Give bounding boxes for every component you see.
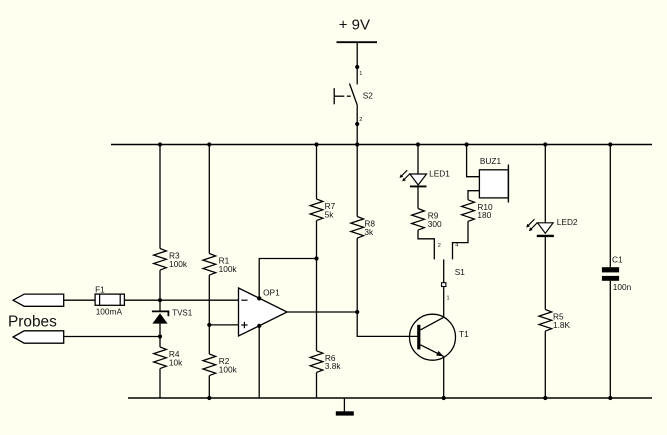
wire top rail to R7 [316, 145, 318, 200]
wire R10 to S1 pin 4 [453, 221, 469, 259]
wire plus input from R1/R2 node [209, 324, 238, 326]
resistor R3 [154, 249, 188, 271]
svg-text:S2: S2 [363, 90, 374, 100]
wire S2 blade to pin2 [356, 105, 358, 124]
wire op-amp V+ to R7 node [259, 259, 316, 299]
wire top rail to BUZ1 pin1 [467, 145, 480, 177]
resistor R2 [203, 354, 238, 376]
wire BUZ1 pin2 to R10 [468, 191, 479, 200]
wire op-amp V- to ground rail [258, 326, 260, 398]
LED1 arrows [400, 170, 410, 181]
node bottom rail junctions [207, 396, 612, 400]
wire R6 to ground rail [316, 372, 318, 398]
svg-text:3.8k: 3.8k [325, 361, 342, 371]
switch S2 actuator [334, 88, 351, 104]
op-amp OP1 [239, 288, 288, 336]
buzzer BUZ1 [479, 156, 508, 203]
node R1/R2/plus-input junction [207, 323, 211, 327]
svg-text:Probes: Probes [8, 314, 57, 331]
wire R1 to R2 crossing minus line [208, 275, 210, 354]
wire LED2 to R5 [544, 236, 546, 310]
transistor T1 base bar [417, 325, 420, 350]
svg-text:LED1: LED1 [429, 169, 450, 179]
node output/R8 junction [355, 310, 359, 314]
svg-text:1.8K: 1.8K [553, 320, 571, 330]
wire bottom ground rail [128, 397, 652, 399]
wire R8 to output node [356, 238, 358, 312]
resistor R8 [351, 217, 376, 239]
switch S2 blade [350, 84, 358, 106]
node R7/V+ wire junction [314, 256, 318, 260]
node S2 pin 2 [355, 122, 359, 126]
svg-text:300: 300 [428, 219, 442, 229]
svg-text:LED2: LED2 [557, 217, 578, 227]
resistor R7 [310, 199, 335, 221]
resistor R10 [462, 200, 493, 222]
probe P2 tip [13, 331, 64, 343]
wire S2 pin1 to blade [356, 67, 358, 84]
node probe1/R3/F1 junction [158, 298, 162, 302]
svg-text:100k: 100k [169, 259, 188, 269]
switch S1 actuator square [442, 283, 446, 287]
wire top rail to R8 [356, 145, 358, 217]
transistor T1 body [410, 314, 456, 360]
svg-text:100k: 100k [219, 264, 238, 274]
resistor R1 [203, 254, 238, 276]
wire output node to T1 base [357, 312, 417, 336]
wire R5 to ground rail [544, 331, 546, 398]
node op-amp V- pin [257, 324, 261, 328]
switch S1 pole wire [443, 259, 445, 317]
resistor R5 [539, 310, 571, 332]
svg-text:OP1: OP1 [263, 288, 280, 298]
resistor R6 [310, 351, 341, 373]
wire R4 to ground rail [159, 369, 161, 398]
svg-text:4: 4 [455, 243, 458, 249]
svg-text:+ 9V: + 9V [339, 17, 370, 34]
wire T1 emitter to ground rail [443, 356, 445, 398]
wire R9 to S1 pin 2 [418, 230, 434, 259]
svg-text:C1: C1 [612, 255, 623, 265]
wire R3 to probe node and TVS1 [159, 270, 161, 311]
wire LED1 to R9 [417, 186, 419, 208]
wire probe2 to TVS1 node [64, 336, 160, 338]
wire top supply rail [111, 144, 652, 146]
op-amp minus sign [241, 299, 247, 301]
wire R2 to ground rail [208, 376, 210, 398]
wire top rail to R1 [208, 145, 210, 254]
svg-text:T1: T1 [459, 329, 469, 339]
probe P1 tip [13, 294, 64, 306]
LED2 arrows [526, 219, 537, 231]
svg-text:2: 2 [359, 117, 362, 123]
ground [336, 398, 354, 416]
wire top rail to C1 [609, 145, 611, 268]
capacitor C1 [602, 255, 632, 293]
transistor T1 collector [420, 317, 443, 330]
wire top rail to LED2 [544, 145, 546, 223]
wire probe1 to fuse F1 [64, 299, 95, 301]
wire R7 to R6 crossing output line [316, 221, 318, 351]
svg-text:100n: 100n [613, 282, 632, 292]
svg-text:2: 2 [438, 243, 441, 249]
svg-text:100mA: 100mA [96, 306, 123, 316]
resistor R9 [412, 209, 442, 231]
wire top rail to LED1 [417, 145, 419, 175]
svg-text:BUZ1: BUZ1 [480, 156, 502, 166]
node top rail junctions [158, 142, 613, 146]
power rail bar +9V [337, 41, 378, 43]
wire TVS1 to probe2 node [159, 324, 161, 347]
wire C1 to ground rail [609, 281, 611, 398]
node op-amp V+ pin [257, 296, 261, 300]
wire F1 to op-amp minus input [124, 299, 238, 301]
transistor T1 emitter [420, 345, 443, 357]
op-amp plus sign [241, 322, 247, 328]
svg-text:S1: S1 [455, 267, 466, 277]
svg-text:100k: 100k [219, 364, 238, 374]
svg-text:1: 1 [359, 71, 362, 77]
node probe2/TVS1/R4 junction [158, 334, 162, 338]
wire S2 pin2 to top rail [356, 124, 358, 145]
fuse F1 [95, 285, 124, 317]
LED LED1 [410, 169, 450, 187]
node S2 pin 1 [355, 65, 359, 69]
wire top rail to R3 [159, 145, 161, 249]
svg-text:TVS1: TVS1 [172, 309, 193, 318]
wire S2 stem from +9V bar [356, 42, 358, 67]
resistor R4 [154, 347, 184, 369]
svg-text:5k: 5k [325, 209, 335, 219]
svg-text:1: 1 [447, 295, 450, 301]
svg-text:F1: F1 [95, 285, 105, 295]
diode TVS1 [152, 309, 193, 324]
svg-text:10k: 10k [169, 357, 183, 367]
wire op-amp output [287, 311, 357, 313]
svg-text:180: 180 [477, 210, 491, 220]
svg-text:3k: 3k [364, 227, 374, 237]
LED LED2 [537, 217, 578, 236]
